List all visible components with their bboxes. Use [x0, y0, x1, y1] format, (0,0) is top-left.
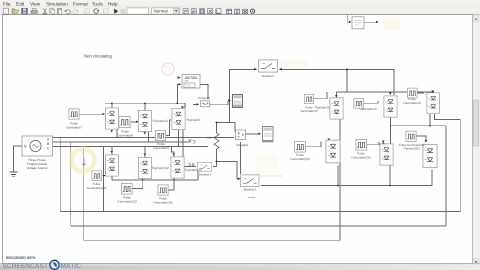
arrowhead mini output — [376, 21, 379, 24]
wire: riser x=347 down to top gate bus y=92 — [346, 70, 348, 93]
phase wire B — [57, 141, 190, 143]
wire: A3 bottom to H-top and right riser x=460 — [435, 114, 461, 212]
svg-text:Generator20: Generator20 — [403, 101, 421, 105]
svg-text:Generator8: Generator8 — [117, 134, 133, 138]
wire: row1 top bus y=103.3 — [105, 103, 185, 107]
svg-text:Thyristor(2)2: Thyristor(2)2 — [151, 166, 169, 170]
thyristor T2a — [105, 155, 118, 176]
junction dots bus180 — [142, 179, 144, 181]
wire: voltage3 out to scope2 — [246, 133, 259, 135]
arrowhead into breaker1 right side — [279, 68, 282, 71]
pulse generator PG9 — [155, 130, 165, 140]
svg-text:Voltage3: Voltage3 — [236, 143, 248, 147]
wire: left drop x=103.4 — [102, 147, 104, 212]
toolbar icon: print — [31, 11, 37, 14]
wire: H-mid y=125.8 — [391, 125, 447, 127]
wire: B1 bottom drop — [337, 166, 339, 186]
wire: bus2 y=226 — [71, 225, 446, 227]
svg-text:MATIC: MATIC — [61, 263, 82, 270]
wire: voltage3 bottom into breaker2 top — [240, 142, 242, 174]
wire: tee at y=161.5 to breaker2 path — [217, 162, 239, 180]
wire: left drop x=60.3 from phase A — [59, 138, 61, 212]
thyristor T1c — [172, 108, 185, 129]
toolbar icon: new — [3, 8, 8, 14]
svg-text:Thyristor(2)4: Thyristor(2)4 — [184, 168, 202, 172]
breaker B block — [197, 162, 211, 171]
toolbar icon: stop greyed — [121, 9, 125, 13]
svg-text:Current1: Current1 — [185, 75, 197, 79]
svg-text:Generator(2)3: Generator(2)3 — [117, 200, 137, 204]
thyristor B2 — [380, 144, 393, 165]
status bar — [0, 264, 480, 270]
arrowhead into B3 top — [425, 140, 428, 143]
resistor R2 zigzag — [214, 133, 219, 149]
toolbar icon: copy — [50, 8, 54, 12]
wire: PG top-right to A3 gate — [417, 92, 424, 94]
current measurement subsystem Current1 — [182, 75, 200, 89]
thyristor T2c — [171, 157, 184, 178]
thyristor A1 — [330, 98, 343, 119]
wire: R2 bottom down to breaker B junction — [216, 149, 218, 167]
phase wire A — [57, 137, 234, 139]
svg-text:File: File — [3, 1, 11, 6]
wire: T2b bottom stub — [142, 179, 144, 181]
wire: breaker1 left feed from vertical riser x=229.5 — [230, 70, 255, 123]
faint arrow under breaker2 — [248, 197, 254, 199]
toolbar icon: paste — [57, 9, 62, 14]
scrollbar down button — [473, 259, 479, 266]
wire: PGb out riser — [133, 180, 143, 189]
red scribble annotation near phases — [189, 139, 196, 144]
arrowhead into scope1 — [228, 99, 231, 102]
svg-text:Normal: Normal — [154, 8, 168, 13]
wire: row2 bottom bus y=180 — [112, 179, 198, 181]
svg-text:Tools: Tools — [92, 1, 104, 6]
three-phase programmable voltage source — [22, 136, 53, 156]
thyristor A3 — [427, 93, 440, 113]
faint highlighted block right of mini subsystem — [385, 19, 400, 31]
wire: tee y=122.5 to R2 and voltage — [217, 123, 236, 133]
wire: bus3 y=240.3 — [84, 239, 340, 241]
junction at 347,69.5 — [346, 69, 348, 71]
svg-text:Generator12: Generator12 — [359, 107, 377, 111]
wire: PGc out riser — [169, 180, 174, 190]
wire: T1c right-bottom to T2c top x=183 — [182, 130, 184, 157]
cursor inside halo — [82, 158, 86, 165]
svg-text:Current3: Current3 — [198, 96, 210, 100]
svg-text:Thyristor5: Thyristor5 — [186, 118, 200, 122]
pink scribble annotation — [162, 63, 174, 75]
wire: right riser x=446 H-mid down to bus2 — [445, 126, 447, 226]
current measurement Current3 — [201, 101, 210, 107]
wire: A3 top stub — [432, 92, 434, 94]
wire: into Current3 left arrow — [193, 104, 197, 106]
junction at 430,125.8 — [429, 125, 431, 127]
wire: breakerB bottom drop — [197, 172, 199, 181]
menu/toolbar chrome background — [0, 0, 480, 15]
wire: A1 top stub — [336, 92, 338, 98]
pulse generator PGr2 — [407, 88, 417, 98]
wire: B2 top feed from H-mid — [390, 126, 392, 145]
pulse generator top-left small (row1 extra) — [304, 94, 313, 103]
svg-text:Format: Format — [73, 1, 89, 6]
pulse generator PGb1 — [295, 141, 306, 152]
svg-text:Generator9: Generator9 — [153, 146, 169, 150]
pulse generator PG7 — [69, 109, 79, 119]
svg-text:Breaker1: Breaker1 — [262, 74, 275, 78]
svg-text:Thyristor(2): Thyristor(2) — [152, 119, 168, 123]
wire: PGa out to T2a — [102, 175, 104, 177]
arrowhead into B1 top-left — [328, 139, 331, 142]
wire: PG7 out to T1a — [79, 113, 103, 115]
pulse generator PGc — [158, 185, 168, 195]
scrollbar thumb — [473, 100, 479, 146]
junction — [216, 161, 218, 163]
junction at 433,92 — [432, 91, 434, 93]
svg-text:Voltage Source: Voltage Source — [27, 166, 48, 170]
wire: left drop x=70.8 from phase B — [70, 142, 72, 226]
wire: B3 top feed — [417, 136, 427, 142]
wire: T1c bottom to phase C — [178, 130, 180, 147]
yellow mouse halo annotation — [72, 149, 95, 172]
toolbar separator line — [0, 13, 480, 15]
breaker1 block — [258, 60, 277, 72]
svg-text:Generator10: Generator10 — [301, 109, 318, 113]
thyristor T2b — [138, 157, 151, 178]
wire: T1a bottom to phase A — [116, 130, 118, 138]
toolbar icon: undo — [65, 10, 71, 14]
wire: PG B1 out — [306, 142, 321, 147]
svg-text:Thyristor(2)1: Thyristor(2)1 — [403, 147, 420, 151]
wire: T2a bottom stub — [111, 177, 113, 181]
pulse generator PGb3 — [406, 131, 416, 141]
arrowhead into breaker1 left — [254, 68, 257, 71]
wire: left drop x=83.8 from phase C — [83, 147, 85, 241]
wire: T1a top stub — [111, 103, 113, 107]
toolbar right icon cluster — [183, 9, 221, 14]
svg-text:Thyristor10: Thyristor10 — [314, 106, 330, 110]
wire: breakerB right to R2 bottom line — [213, 166, 217, 168]
toolbar icon: refresh loop — [94, 9, 99, 14]
wire: source port stubs — [53, 138, 58, 147]
wire: T1b bottom to phase B — [148, 132, 150, 142]
mini subsystem block top — [352, 17, 364, 29]
vertical scrollbar track — [473, 15, 479, 264]
svg-text:RECORDED WITH: RECORDED WITH — [6, 256, 36, 260]
toolbar icon: open — [12, 9, 19, 13]
gate arrowheads row A tops — [335, 95, 338, 98]
wire: T1b top stub — [144, 103, 146, 110]
junction — [177, 102, 179, 104]
wire: riser x=177.4 to Current1 — [177, 85, 179, 104]
svg-text:Help: Help — [108, 1, 118, 6]
svg-text:SCREENCAST: SCREENCAST — [3, 263, 49, 270]
wire: PG B2 out to gate — [367, 142, 379, 145]
pulse generator PGb — [121, 183, 132, 194]
wire: row2 tops from phase C — [112, 147, 174, 158]
wire: PG right-row1 label stub — [314, 92, 327, 99]
wire: Current3 out to scope1 — [210, 104, 228, 106]
arrowhead into scope2 — [259, 133, 262, 136]
pulse generator PGa — [92, 171, 102, 181]
svg-text:Edit: Edit — [16, 1, 25, 6]
wire: B2 bottom drop — [389, 165, 391, 186]
wire: source N to ground — [14, 146, 23, 172]
svg-text:Non circulating: Non circulating — [84, 54, 112, 59]
svg-text:Simulation: Simulation — [46, 1, 68, 6]
arrowhead into B2 top — [382, 141, 385, 144]
toolbar icon: cut — [43, 8, 47, 14]
thyristor T1b — [138, 110, 151, 131]
junction dot B2 gate — [383, 142, 385, 144]
wire: R2 top stub — [216, 123, 218, 134]
junction dots on bus185 — [337, 185, 339, 187]
watermark: logo circle — [50, 260, 59, 269]
wire: PG right row1 to A2 gate — [364, 101, 378, 103]
wire: right top bus y=92 — [337, 91, 434, 93]
thyristor A2 — [384, 96, 397, 117]
pulse generator PGb2 — [356, 139, 367, 150]
wire: B-row bottom bus y=185.5 — [261, 185, 432, 187]
arrowhead into T1c top — [181, 106, 184, 109]
wire: bus1 y=211.5 — [60, 211, 460, 213]
svg-text:R2: R2 — [208, 136, 212, 140]
wire: A2 bottom drop to H-mid — [390, 118, 392, 126]
wire: PG8 out to T1b — [131, 121, 137, 123]
svg-text:Generator7: Generator7 — [66, 126, 82, 130]
wire: B3 bottom riser corner — [431, 170, 433, 186]
wire: mini subsystem output with arrow — [364, 21, 376, 23]
toolbar icon: play — [114, 9, 118, 14]
thyristor B1 — [326, 140, 340, 163]
svg-text:Breaker1: Breaker1 — [199, 173, 212, 177]
arrowhead into T1a left — [103, 113, 105, 115]
gate arrowheads row1/2 bottoms — [111, 130, 147, 135]
faint highlighted area near breaker2 — [256, 154, 278, 172]
arrowhead into Current1 left — [179, 83, 182, 85]
wire: Current1 out right, down to Current3 — [200, 85, 208, 100]
arrowhead into breaker2 left — [238, 178, 241, 180]
red signal marker at Current1 — [178, 76, 181, 79]
toolbar icon: save — [22, 8, 28, 14]
pulse generator PGr1 — [354, 98, 364, 108]
wire: long vertical x=340 from B1 side down to bus3 — [339, 126, 341, 241]
toolbar icon: greyed — [85, 9, 90, 14]
svg-text:Generator(2)1: Generator(2)1 — [87, 186, 107, 190]
scope Scope1 — [233, 95, 243, 108]
toolbar sim time field — [127, 8, 149, 14]
toolbar icon: redo greyed — [73, 10, 79, 14]
ground symbol — [10, 172, 18, 177]
wire: PG9 out to T1c — [166, 120, 171, 136]
wire: A1 bottom to B1 top — [339, 120, 341, 141]
wire: top mini subsystem input drop — [347, 15, 350, 23]
scrollbar up button — [473, 15, 479, 22]
junction on row1 bus — [144, 102, 146, 104]
thyristor T1a — [105, 108, 118, 129]
pulse generator PG8 — [119, 116, 130, 127]
menu bar text — [3, 1, 118, 6]
toolbar icon: greyed — [104, 9, 109, 14]
wire: T2c bottom stub — [173, 179, 175, 181]
wire: A3 bottom drop to H-mid — [429, 114, 431, 126]
voltage measurement Voltage3 — [236, 130, 246, 140]
thyristor B3 — [423, 145, 437, 168]
breaker2 block — [241, 175, 259, 187]
svg-text:Breaker2: Breaker2 — [244, 188, 257, 192]
toolbar mode combo Normal — [152, 8, 180, 14]
svg-text:View: View — [30, 1, 41, 6]
phase wire C — [57, 146, 208, 148]
junction — [216, 122, 218, 124]
red marker at breaker B input — [189, 163, 195, 166]
svg-text:Generator(2)6: Generator(2)6 — [351, 156, 371, 160]
faint highlighted block right of breaker1 — [280, 60, 308, 67]
wire: breakerB left from T2c — [184, 166, 196, 168]
wire: breaker1 right to A2 riser — [282, 70, 395, 96]
scope Scope2 — [262, 127, 274, 143]
svg-text:Generator(2)4: Generator(2)4 — [290, 157, 310, 161]
toolbar dark icons far right — [227, 9, 255, 14]
svg-text:Generator(2)5: Generator(2)5 — [153, 201, 173, 205]
arrowhead mini input — [349, 21, 351, 23]
